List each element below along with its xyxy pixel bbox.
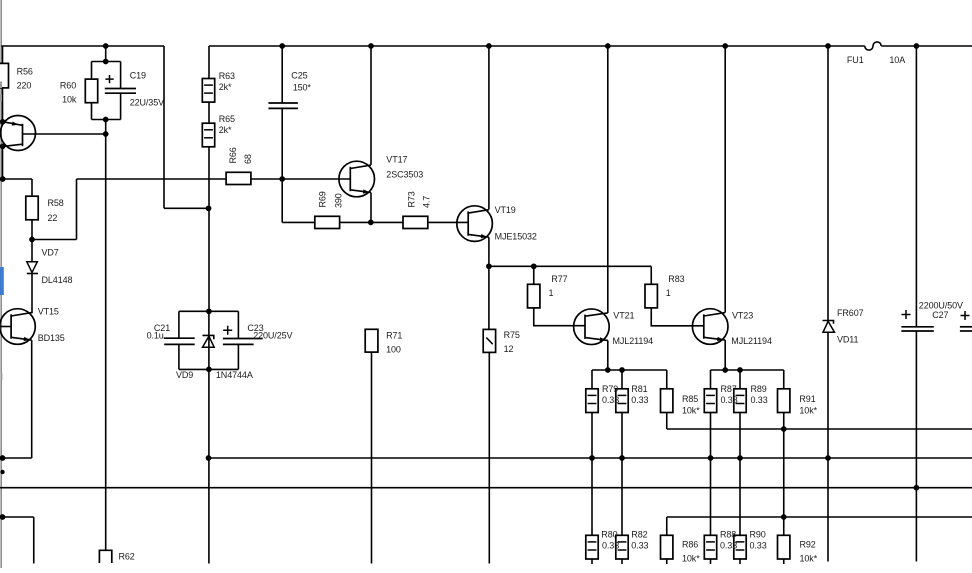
node R81 tap [619,367,625,373]
svg-text:R87: R87 [721,384,737,394]
transistor VT21 [574,309,610,345]
svg-text:R56: R56 [17,66,33,76]
resistor R81 [616,389,628,413]
capacitor C25 top lead [281,46,283,103]
resistor R79 [586,389,598,413]
wire R83 drop [650,266,652,284]
svg-text:10k*: 10k* [799,406,817,416]
resistor R81 top lead [621,370,623,389]
node VT21 emitter y370 [605,367,611,373]
transistor VT23 [692,309,728,345]
wire y179 to R66 [77,178,227,180]
node rail-C27 [914,43,920,49]
node base junction [103,131,109,137]
svg-text:R65: R65 [219,114,235,124]
wire R88 stub [710,559,712,564]
wire VT15 base [0,326,11,328]
capacitor C19 bottom lead [120,93,122,119]
svg-text:MJE15032: MJE15032 [495,231,537,241]
svg-text:MJL21194: MJL21194 [613,336,654,346]
wire R92 stub [783,559,785,564]
svg-text:22U/35V: 22U/35V [130,98,164,108]
svg-text:1: 1 [549,288,554,298]
svg-text:BD135: BD135 [38,333,65,343]
node R91 y429 [781,426,787,432]
wire R90 stub [739,559,741,564]
svg-text:2k*: 2k* [219,125,232,135]
svg-text:VT15: VT15 [38,306,59,316]
svg-text:100: 100 [386,345,401,355]
svg-text:2200U/50V: 2200U/50V [919,300,963,310]
svg-text:DL4148: DL4148 [42,275,73,285]
wire R86 stub [666,559,668,564]
node y458 start [206,455,212,461]
resistor R60 bottom lead [91,103,93,120]
transistor VT17 [339,161,375,197]
resistor R77 top lead [533,266,535,284]
resistor R91 [778,389,790,413]
wire y370 group2 [711,369,784,371]
wire x164 drop [163,46,165,208]
resistor R86 [661,535,673,559]
resistor R79 top lead [591,370,593,389]
svg-text:10k*: 10k* [682,406,700,416]
wire VT23 collector up [724,46,726,313]
wire main top rail right of fuse [881,45,972,47]
wire R65 to cap network [208,147,210,311]
resistor R87 top lead [710,370,712,389]
svg-text:VT21: VT21 [613,311,634,321]
capacitor C23 plates [223,338,263,340]
fuse FU1 [865,42,881,50]
svg-text:10A: 10A [889,55,905,65]
wire y266 to R83 bend [534,265,652,267]
capacitor C19 top lead [120,62,122,88]
svg-text:1N4744A: 1N4744A [216,370,253,380]
wire R91 down [783,413,785,518]
node cap net top [206,308,212,314]
resistor R85 [661,389,673,413]
wire R87 down [710,413,712,536]
gray text fragment [1,373,3,380]
diode VD9 zener [203,335,214,339]
wire PNP base [23,133,106,135]
node emitter edge [0,119,5,125]
wire long vertical x105 to R62 [105,134,107,550]
wire VD11 bottom lead [827,332,829,561]
wire VT17 emitter down [370,193,372,223]
wire to base node [105,120,107,135]
resistor R89 [734,389,746,413]
svg-text:R79: R79 [602,384,618,394]
diode VD7 bottom lead [31,274,33,314]
svg-text:R86: R86 [682,540,698,550]
wire C19 column top [105,46,107,62]
svg-text:2k*: 2k* [219,82,232,92]
wire VT15 emitter down [31,340,33,458]
node y458 R79 [589,455,595,461]
node left edge y179 [0,176,6,182]
wire node to R73 [371,221,404,223]
wire cap net bottom [179,368,239,370]
svg-text:R60: R60 [60,81,76,91]
wire R71 down [371,352,373,563]
svg-text:0.33: 0.33 [751,395,768,405]
wire R85 to y429 [666,413,668,430]
svg-text:C25: C25 [291,70,307,80]
wire left edge top [2,46,4,63]
svg-text:0.33: 0.33 [602,541,619,551]
wire R66 to C25 node [251,178,282,180]
resistor R56 [0,63,9,88]
svg-text:R81: R81 [631,384,647,394]
node rail-C19 [103,43,109,49]
resistor R85 top lead [666,370,668,389]
wire R79 down [591,413,593,536]
resistor R92 top lead [783,517,785,535]
svg-text:C27: C27 [932,310,948,320]
node y517 R92 [781,514,787,520]
node y458 R87 [708,455,714,461]
resistor R80 [586,535,598,559]
wire VT19 emitter down [488,237,490,266]
svg-text:R89: R89 [751,384,767,394]
svg-text:R83: R83 [668,274,684,284]
svg-text:R82: R82 [631,530,647,540]
svg-text:R80: R80 [601,530,617,540]
transistor VT19 [457,206,493,242]
node stub y472 [0,470,4,474]
wire VT17 collector up [370,46,372,165]
svg-text:1: 1 [666,288,671,298]
capacitor C29 plates (edge) [960,326,972,328]
resistor R73 [403,216,428,228]
svg-text:0.33: 0.33 [721,395,738,405]
capacitor C29 plus (edge) [961,311,970,320]
blue selection bar [0,267,4,295]
resistor R62 [99,550,111,563]
capacitor C27 top lead [915,46,917,327]
resistor R75 [483,329,495,352]
node rail-VT19 [486,43,492,49]
node x164 join [206,205,212,211]
svg-text:68: 68 [243,154,253,164]
svg-text:R92: R92 [800,540,816,550]
node loop bottom [103,117,109,123]
wire loop bottom [92,119,121,121]
wire cap net top [179,310,239,312]
wire y208 link [164,207,209,209]
diode VD11 zener [823,321,834,324]
wire main top rail left of fuse [209,45,865,47]
node y458 VD11 [825,455,831,461]
svg-text:0.33: 0.33 [720,541,737,551]
svg-text:R77: R77 [551,274,567,284]
node collector edge [0,143,5,149]
wire top-left rail [1,45,164,47]
resistor R77 [528,284,540,308]
wire VT21 emitter down [607,340,609,370]
wire y370 group1 [592,369,667,371]
svg-text:0.1u: 0.1u [147,330,164,340]
wire R89 down [739,413,741,536]
wire R69 to node [340,221,371,223]
resistor R83 [645,284,657,308]
svg-text:MJL21194: MJL21194 [731,336,772,346]
svg-text:VD9: VD9 [176,370,193,380]
resistor R58 [26,196,38,220]
wire rail to R63 [208,46,210,79]
capacitor C21 bottom lead [178,344,180,369]
capacitor C21 top lead [178,311,180,338]
svg-text:4.7: 4.7 [422,196,432,208]
svg-text:0.33: 0.33 [602,395,619,405]
svg-text:VD11: VD11 [837,335,859,345]
wire emitter node down to R75 [488,266,490,329]
capacitor C27 plates [901,326,933,328]
svg-text:2SC3503: 2SC3503 [386,170,423,180]
svg-text:R88: R88 [720,530,736,540]
wire R82 stub [621,559,623,564]
wire y488 bus [0,487,972,489]
wire y179 to R58 [3,178,33,180]
wire y517 bus [667,516,972,518]
svg-text:R58: R58 [48,198,64,208]
resistor R69 [315,216,340,228]
node VT23 emitter y370 [722,367,728,373]
wire C25 node down [281,179,283,222]
wire VT23 emitter down [724,340,726,370]
node y488 C27 [914,485,920,491]
resistor R63 [202,79,214,103]
wire y458 left segment [3,457,32,459]
node VT19 emitter junction [486,263,492,269]
resistor R71 [365,329,378,352]
node R58-VD7 [29,237,35,243]
resistor R66 [226,172,251,184]
wire R81 down [621,413,623,536]
svg-text:VT17: VT17 [386,155,407,165]
capacitor C23 bottom lead [237,344,239,369]
node R89 tap [737,367,743,373]
svg-text:12: 12 [504,344,514,354]
resistor R60 top lead [91,62,93,80]
resistor R91 top lead [783,370,785,389]
svg-text:VT19: VT19 [495,205,516,215]
svg-text:VT23: VT23 [732,311,753,321]
svg-text:R91: R91 [799,394,815,404]
node rail-VT23 [722,43,728,49]
svg-text:0.33: 0.33 [631,541,648,551]
node loop top [103,59,109,65]
svg-text:R73: R73 [407,191,417,207]
svg-text:0.33: 0.33 [631,395,648,405]
capacitor C27 bottom lead [915,331,917,562]
wire R83 bottom bend [651,308,704,326]
svg-text:150*: 150* [293,82,312,92]
svg-text:R71: R71 [386,330,402,340]
svg-text:10k*: 10k* [800,554,818,564]
capacitor C19 plus [105,75,113,83]
wire through VD9 [208,311,210,369]
svg-text:10k*: 10k* [682,554,700,564]
svg-text:R85: R85 [682,394,698,404]
wire R73 to VT19 base [428,221,468,223]
svg-text:390: 390 [334,193,344,208]
capacitor C25 bottom lead [281,108,283,179]
wire left edge below transistor [2,146,4,179]
svg-text:R90: R90 [750,530,766,540]
wire R77 bottom bend [534,308,585,326]
wire y266 to R77 node [489,265,534,267]
transistor VT15 [0,309,35,345]
wire VT19 collector up [488,46,490,210]
wire R80 stub [591,559,593,564]
wire VT17 base [282,178,350,180]
diode VD7 [27,262,38,273]
svg-text:0.33: 0.33 [750,541,767,551]
wire cap net down to bus [208,369,210,563]
resistor R82 [616,535,628,559]
resistor R60 [85,79,97,103]
wire y458 bus [209,457,972,459]
svg-text:VD7: VD7 [42,247,59,257]
node y458 left edge [0,455,5,461]
node rail-VD11 [825,43,831,49]
capacitor C23 plus [223,326,232,335]
wire R86 top lead [666,517,668,535]
svg-text:R75: R75 [504,330,520,340]
svg-text:R63: R63 [219,71,235,81]
node y458 R89 [737,455,743,461]
wire R63-R65 [208,102,210,123]
svg-text:220: 220 [17,80,32,90]
wire VT21 collector up [607,46,609,313]
svg-text:220U/25V: 220U/25V [253,330,292,340]
window border edge [0,0,2,568]
capacitor C25 plates [268,102,298,104]
wire to R69 [282,221,315,223]
wire y517 left segment [3,516,34,518]
transistor VT top-left PNP [1,116,36,151]
node VT17 emitter junction [368,220,374,226]
wire left edge below R56 [2,88,4,122]
resistor R58 top lead [31,179,33,196]
wire y429 bus [667,428,972,430]
wire bypass right [32,239,77,241]
node C25-base [279,176,285,182]
svg-text:22: 22 [48,213,58,223]
resistor R89 top lead [739,370,741,389]
gray text fragment [0,82,2,89]
wire x33.75 down [33,517,35,564]
gray text fragment [0,95,2,102]
node rail-VT17 [368,43,374,49]
wire VD11 top lead [827,46,829,321]
node y458 R81 [619,455,625,461]
svg-text:R66: R66 [228,147,238,163]
svg-text:10k: 10k [62,95,77,105]
wire bypass up [76,179,78,240]
svg-text:FU1: FU1 [847,55,864,65]
resistor R65 [202,123,214,147]
wire R75 down [488,352,490,563]
node rail-VT21 [605,43,611,49]
svg-text:R69: R69 [318,191,328,207]
resistor R90 [734,535,746,559]
capacitor C21 plates [164,337,195,339]
capacitor C19 plates [105,88,136,90]
resistor R87 [704,389,716,413]
svg-text:C19: C19 [130,70,146,80]
wire loop top [92,61,121,63]
diode VD7 top lead [31,240,33,262]
svg-text:R62: R62 [119,551,135,561]
node R77 tap [531,263,537,269]
resistor R58 bottom lead [31,220,33,240]
capacitor C27 plus [902,310,911,319]
node cap net bottom [206,367,212,373]
svg-text:FR607: FR607 [837,308,864,318]
node rail-C25 [279,43,285,49]
resistor R92 [778,535,790,559]
capacitor C23 top lead [237,311,239,338]
node y517 left edge [0,514,5,520]
resistor R88 [704,535,716,559]
